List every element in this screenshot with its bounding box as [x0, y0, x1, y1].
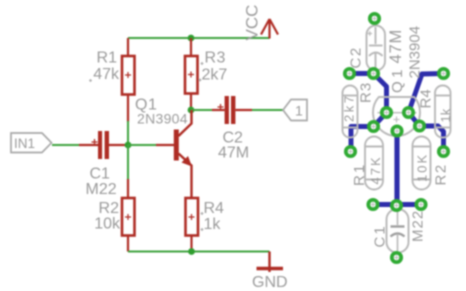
text origin tick of 2k7 label [199, 79, 202, 82]
junction node: base [125, 142, 132, 149]
ground symbol GND [257, 252, 284, 273]
svg-text:47M: 47M [218, 145, 249, 162]
trace: Q1 emitter pad to R2 top [409, 113, 420, 127]
component outline C2 (pcb) [367, 26, 386, 71]
svg-text:2N3904: 2N3904 [137, 111, 188, 127]
text origin tick of 47k label [89, 79, 92, 82]
trace: R1 top to R3 bottom [351, 127, 374, 152]
trace: Q1 base pad down to C1 top [394, 131, 399, 206]
svg-text:47M: 47M [387, 29, 405, 64]
svg-text:R3: R3 [358, 82, 375, 103]
svg-text:1: 1 [295, 103, 303, 119]
trace: R2 top to R4 bottom [420, 126, 444, 152]
svg-text:R4: R4 [418, 89, 435, 108]
wire: base node to Q1 base [128, 144, 157, 146]
wire: IN1 to C1 [52, 144, 80, 146]
svg-text:10k: 10k [94, 216, 121, 233]
svg-text:GND: GND [252, 274, 288, 291]
trace: bottom rail R1-C1-R2 [373, 202, 421, 207]
pad: R1 bottom [368, 200, 377, 209]
text origin tick of 1k label [201, 228, 204, 231]
trace: Q1 collector pad to R1 top [374, 113, 387, 127]
pad: Q1 emitter [404, 108, 413, 117]
resistor R2 [122, 198, 135, 236]
pad: Q1 base [392, 126, 401, 135]
svg-text:M22: M22 [86, 181, 117, 198]
wire: bottom ground rail [128, 251, 270, 253]
svg-text:R1: R1 [351, 163, 368, 186]
component outline R1 (pcb) [365, 137, 383, 190]
svg-text:C1: C1 [90, 166, 111, 183]
pad: R4 bottom [439, 147, 448, 156]
wire: R3 top pin stub [190, 38, 192, 56]
trace: R3 top to C2 bottom [350, 71, 374, 76]
wire: collector node to C2 [191, 109, 213, 111]
wire: C2 to output pin [236, 109, 253, 111]
svg-text:2k7: 2k7 [342, 94, 357, 122]
pad: C1 bottom [392, 253, 401, 262]
component outline Q1 (pcb, TO-92) [373, 97, 420, 136]
pad: R2 bottom [416, 200, 425, 209]
svg-text:R3: R3 [205, 50, 226, 67]
svg-text:R1: R1 [97, 50, 118, 67]
wire: R1 top pin stub [127, 38, 129, 56]
svg-text:47K: 47K [368, 155, 383, 184]
trace: C2 bottom to Q1 collector pad [374, 74, 387, 113]
component outline C1 (pcb) [387, 209, 409, 253]
component outline R3 (pcb) [343, 86, 358, 138]
svg-text:10K: 10K [415, 153, 430, 182]
polarity mark of C2 (pcb) [368, 31, 373, 36]
svg-text:2k7: 2k7 [202, 67, 228, 84]
resistor R1 [122, 56, 135, 95]
svg-text:M22: M22 [410, 210, 427, 242]
trace: R4 top to Q1 emitter pad [409, 74, 444, 113]
svg-text:R2: R2 [433, 163, 450, 185]
pin IN1 (input connector) [11, 133, 52, 153]
text origin tick of R3 label [201, 62, 204, 65]
svg-text:1k: 1k [204, 216, 222, 233]
svg-text:VCC: VCC [243, 5, 262, 41]
pad: Q1 collector [382, 108, 391, 117]
text origin tick of R4 label [201, 212, 204, 215]
resistor R4 [186, 198, 199, 236]
transistor Q1 [174, 110, 192, 198]
pad: C1 top [392, 201, 401, 210]
wire: R1 bottom to base node [127, 95, 129, 123]
origin cross of Q1 package [394, 117, 400, 123]
junction node: rail to R3 [188, 35, 195, 42]
junction node: collector [188, 107, 195, 114]
supply symbol VCC (arrow) [261, 19, 278, 39]
svg-text:2N3904: 2N3904 [407, 26, 424, 79]
svg-text:47k: 47k [93, 66, 120, 83]
svg-text:R4: R4 [204, 200, 225, 217]
capacitor C1 (polarized) [92, 131, 110, 159]
resistor R3 [185, 56, 198, 94]
pad: R1 top [369, 122, 378, 131]
pad: R4 top [439, 69, 448, 78]
svg-text:Q1: Q1 [389, 66, 406, 93]
wire: top VCC rail [128, 37, 270, 39]
pad: C2 top (VCC) [370, 14, 379, 23]
pad: C2 bottom [369, 69, 378, 78]
svg-text:1k: 1k [438, 108, 453, 122]
component outline R2 (pcb) [413, 137, 431, 190]
svg-text:C1: C1 [372, 224, 389, 247]
capacitor C2 (polarized) [218, 96, 236, 124]
wire: base node to R2 [127, 145, 129, 180]
component outline R4 (pcb) [435, 86, 451, 138]
junction node: R4 to ground rail [188, 248, 195, 255]
pad: R3 top [345, 69, 354, 78]
wire: R3 bottom to collector node [190, 94, 192, 111]
pad: R2 top [415, 121, 424, 130]
svg-text:C2: C2 [348, 46, 365, 68]
pin 1 (output connector) [283, 100, 307, 121]
wire: R2 bottom stub [127, 236, 129, 252]
pad: R3 bottom [346, 147, 355, 156]
wire: R4 bottom stub [190, 236, 192, 252]
svg-text:IN1: IN1 [14, 136, 35, 151]
wire: C1 to base node [109, 144, 128, 146]
svg-text:R2: R2 [99, 200, 120, 217]
